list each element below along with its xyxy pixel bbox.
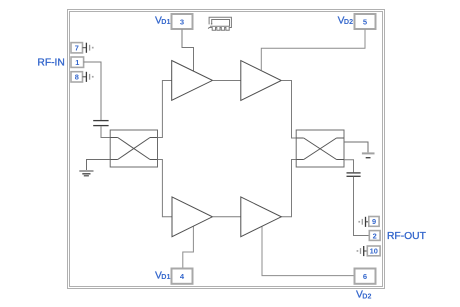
wire A3 to A4 [212, 216, 240, 218]
amplifier A1 [172, 61, 213, 101]
wire pin1 to C1 [84, 62, 101, 120]
capacitor C1 [93, 121, 108, 126]
spiral inductor logo [208, 17, 231, 30]
svg-text:10: 10 [370, 247, 378, 256]
label VD1 top [155, 15, 171, 26]
pin 6 box [355, 269, 376, 284]
balun B2 (crossed box) [296, 130, 344, 167]
wire pin5 feed to A2 [261, 30, 365, 71]
amplifier A3 [172, 197, 212, 237]
amplifier A2 [241, 61, 281, 101]
svg-text:RF-IN: RF-IN [37, 58, 64, 69]
label VD2 bottom [356, 290, 372, 301]
pin 9 capacitor stub [358, 217, 369, 227]
svg-text:3: 3 [180, 17, 184, 26]
pin 1 box [71, 57, 84, 67]
wire B1 to ground [87, 160, 111, 171]
wire C2 to pin 2 [354, 177, 370, 236]
svg-text:6: 6 [363, 272, 367, 281]
pin 5 box [355, 14, 376, 29]
amplifier A4 [241, 197, 281, 237]
wire B1 to amp A1 [158, 81, 172, 138]
pin 3 box [172, 14, 193, 29]
pin 4 box [172, 269, 193, 284]
svg-text:D2: D2 [362, 291, 371, 300]
label RF-OUT [387, 231, 427, 242]
pin 10 box [367, 246, 380, 256]
wire A4 feed to pin 6 [262, 226, 355, 275]
label VD2 top [338, 15, 354, 26]
svg-text:8: 8 [75, 73, 79, 82]
wire A1 to A2 [213, 80, 241, 82]
ground G1 [79, 171, 93, 176]
label RF-IN [37, 58, 64, 69]
wire B2 to C2 [344, 160, 354, 173]
wire A4 to balun B2 [281, 160, 296, 217]
pin 9 box [369, 217, 379, 227]
label VD1 bottom [155, 270, 171, 281]
svg-text:D1: D1 [161, 17, 170, 26]
svg-text:9: 9 [372, 217, 376, 226]
pin 8 box [71, 72, 83, 82]
balun B1 (crossed box) [110, 130, 157, 167]
svg-text:D1: D1 [161, 272, 170, 281]
svg-text:7: 7 [75, 44, 79, 53]
pin 8 capacitor stub [83, 72, 94, 82]
svg-text:RF-OUT: RF-OUT [387, 231, 427, 242]
pin 2 box [369, 231, 380, 241]
capacitor C2 [347, 173, 361, 176]
wire B1 to amp A3 [158, 160, 173, 217]
svg-text:D2: D2 [344, 17, 353, 26]
wire A2 to balun B2 [281, 81, 296, 139]
ground G2 [362, 153, 375, 157]
pin 10 capacitor stub [357, 246, 368, 256]
pin 7 box [71, 43, 83, 53]
pin 7 capacitor stub [83, 43, 94, 53]
wire C1 to balun B1 [101, 126, 110, 137]
wire pin3 feed to A1 [182, 30, 194, 72]
svg-text:1: 1 [75, 58, 79, 67]
wire pin3feed bottom: A3 to pin4 [183, 226, 194, 269]
package outline border [68, 10, 385, 289]
wire B2 to ground [344, 142, 368, 152]
svg-text:2: 2 [373, 231, 377, 240]
